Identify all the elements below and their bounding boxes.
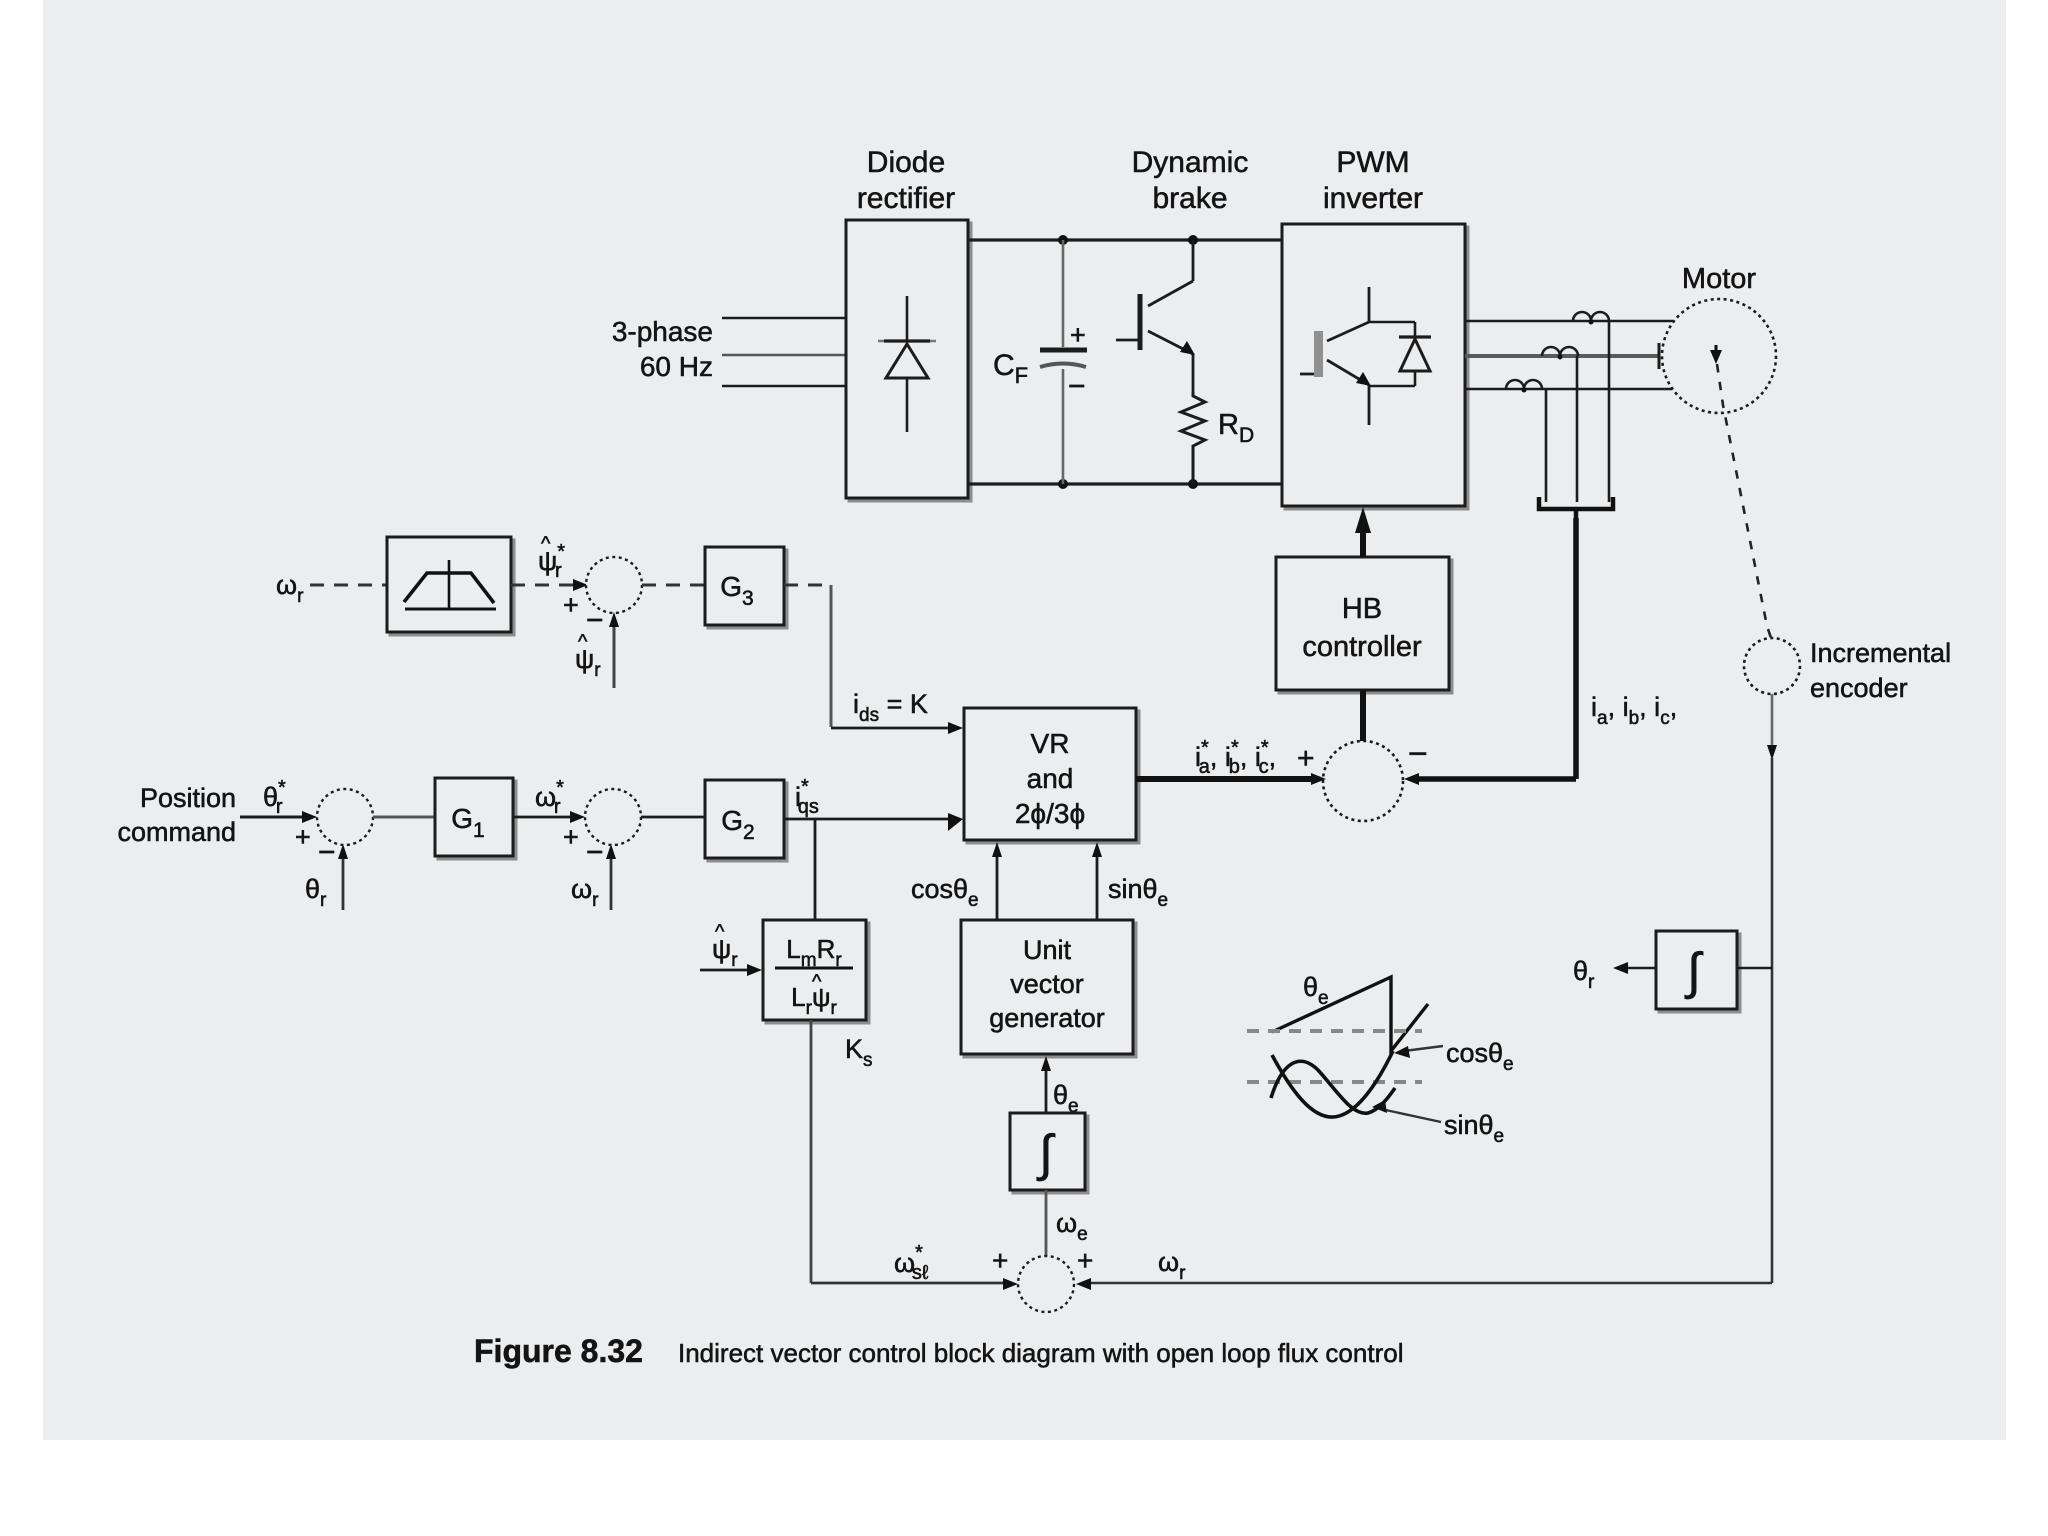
wire: DC bus top <box>968 238 1282 241</box>
wire: ia ib ic feedback (thick) <box>1573 518 1579 779</box>
summing junction speed <box>585 789 641 845</box>
waveform dashed axis bottom <box>1247 1080 1422 1084</box>
transistor Q1 (dynamic brake IGBT) <box>1116 240 1193 392</box>
svg-text:PWM: PWM <box>1336 146 1409 179</box>
waveform dashed axis top <box>1247 1029 1422 1033</box>
wire: omega sl star down and right to bottom summer <box>810 1020 813 1283</box>
current sensor on phase b <box>1542 347 1578 360</box>
svg-text:+: + <box>1070 320 1086 350</box>
integrator (position) box <box>1659 934 1740 1012</box>
svg-text:+: + <box>295 822 311 852</box>
svg-text:^: ^ <box>541 533 551 555</box>
svg-text:+: + <box>563 822 579 852</box>
summing junction bottom (omega e) <box>1018 1256 1074 1312</box>
svg-text:Motor: Motor <box>1682 263 1756 295</box>
svg-text:−: − <box>586 836 604 869</box>
wire: iqs tap down to slip block <box>814 819 817 920</box>
svg-text:3-phase: 3-phase <box>612 316 713 347</box>
svg-text:controller: controller <box>1302 631 1422 663</box>
svg-text:Incremental: Incremental <box>1810 638 1951 668</box>
wire: integrator input from encoder line <box>1737 967 1772 970</box>
resistor RD <box>1181 392 1205 484</box>
block: flux program (function) <box>390 540 514 635</box>
svg-text:Position: Position <box>140 783 236 813</box>
svg-text:inverter: inverter <box>1323 182 1423 215</box>
wire: summer to G1 <box>373 816 435 819</box>
bracket joining sensor taps <box>1539 497 1613 509</box>
svg-text:Figure 8.32: Figure 8.32 <box>474 1333 643 1369</box>
wire: omega r to bottom summer <box>1082 1282 1772 1285</box>
wire: sensor tap b down <box>1576 356 1579 502</box>
svg-text:brake: brake <box>1152 182 1227 215</box>
wire: position input arrow <box>240 816 307 819</box>
block: G2 <box>708 783 787 861</box>
wire: HB to inverter (thick, arrow up) <box>1360 532 1366 557</box>
block: PWM inverter box <box>1285 227 1468 509</box>
svg-text:+: + <box>563 590 579 620</box>
svg-text:^: ^ <box>812 971 822 993</box>
wire: ids = K down and to VR <box>830 585 833 727</box>
pointer: sin theta e <box>1381 1109 1441 1122</box>
wire: sensor tap a down <box>1608 321 1611 502</box>
svg-text:Dynamic: Dynamic <box>1132 146 1249 179</box>
diode D2 (inverter freewheel diode) <box>1369 322 1431 386</box>
wire: speed summer to G2 <box>641 816 705 819</box>
summing junction position <box>317 789 373 845</box>
current sensor on phase a <box>1573 312 1609 325</box>
wire: cos theta e up to VR <box>996 850 999 920</box>
block: unit vector generator <box>964 923 1136 1057</box>
wire: omega e up into integrator <box>1045 1190 1048 1256</box>
diode D1 inside rectifier <box>878 296 936 432</box>
svg-text:^: ^ <box>578 631 588 653</box>
svg-text:60 Hz: 60 Hz <box>640 351 713 382</box>
capacitor CF <box>1040 240 1087 484</box>
svg-text:Diode: Diode <box>867 146 945 179</box>
wire: encoder speed feedback down <box>1771 694 1774 745</box>
block: LmRr over Lr psi (slip gain) <box>766 923 869 1023</box>
svg-text:rectifier: rectifier <box>857 182 955 215</box>
svg-text:Unit: Unit <box>1023 935 1072 965</box>
svg-text:Indirect vector control block: Indirect vector control block diagram wi… <box>678 1338 1403 1368</box>
wire: G2 to VR (iqs) <box>784 818 952 821</box>
incremental encoder <box>1744 638 1800 694</box>
current sensor on phase c <box>1506 380 1542 393</box>
svg-text:−: − <box>586 604 604 637</box>
wire: sensor tap c down <box>1545 389 1548 502</box>
svg-text:HB: HB <box>1342 593 1382 625</box>
block: HB controller <box>1279 560 1452 693</box>
svg-text:command: command <box>117 817 236 847</box>
wire: dashed G3 output <box>784 584 828 587</box>
wire: 3-phase input lines <box>722 318 846 386</box>
svg-text:+: + <box>992 1245 1008 1276</box>
svg-text:^: ^ <box>715 921 725 943</box>
label: Diode rectifier <box>857 146 955 215</box>
wire: sin theta e up to VR <box>1096 850 1099 920</box>
svg-text:−: − <box>1408 735 1428 773</box>
wire: theta e into UVG <box>1045 1064 1048 1113</box>
svg-text:ω*r: ω*r <box>535 777 564 818</box>
block: G1 <box>438 781 516 859</box>
wire: VR output i*abc (thick) <box>1136 776 1314 782</box>
svg-text:−: − <box>1068 370 1086 403</box>
wire: psi hat r into slip block <box>700 969 753 972</box>
integrator (slip) box <box>1013 1116 1088 1193</box>
wire: G1 to speed summer <box>513 816 575 819</box>
pointer: cos theta e <box>1404 1046 1443 1051</box>
svg-text:VR: VR <box>1031 728 1070 759</box>
waveform sine curves <box>1271 1051 1395 1117</box>
label: Dynamic brake <box>1132 146 1249 215</box>
wire: omega r feedback up <box>610 852 613 910</box>
wire: psi hat r feedback up into summer <box>613 620 616 688</box>
junction dots on bus <box>1058 235 1068 245</box>
wire: inverter output phase c <box>1465 388 1672 391</box>
block: diode rectifier box <box>849 223 971 501</box>
svg-text:2ϕ/3ϕ: 2ϕ/3ϕ <box>1015 798 1085 829</box>
wire: dashed summer to G3 <box>642 584 705 587</box>
label: Position command <box>117 783 236 847</box>
label: 3-phase 60 Hz <box>612 316 713 382</box>
transistor Q2 (inverter IGBT) <box>1300 287 1369 425</box>
wire: DC bus bottom <box>968 482 1282 485</box>
block: G3 <box>708 550 787 628</box>
svg-text:vector: vector <box>1010 969 1084 999</box>
wire: summer to HB (thick) <box>1360 690 1366 742</box>
wire: dashed omega r to flux program <box>310 584 387 587</box>
wire: inverter output phase a <box>1465 320 1673 323</box>
wire: dashed flux to summer <box>511 584 578 587</box>
summing junction (current comparator) <box>1323 741 1403 821</box>
label: PWM inverter <box>1323 146 1423 215</box>
svg-text:−: − <box>318 836 336 869</box>
svg-text:generator: generator <box>989 1003 1105 1033</box>
svg-text:+: + <box>1077 1245 1093 1276</box>
motor shaft mark <box>1715 345 1718 355</box>
wire: theta r output <box>1626 967 1656 970</box>
svg-text:i*a, i*b, i*c,: i*a, i*b, i*c, <box>1195 737 1276 778</box>
wire: dashed shaft to encoder <box>1717 364 1771 638</box>
wire: theta r feedback up <box>342 852 345 910</box>
svg-text:and: and <box>1027 763 1074 794</box>
label: Incremental encoder <box>1810 638 1951 703</box>
svg-text:+: + <box>1297 742 1315 775</box>
summing junction flux <box>586 557 642 613</box>
wire: inverter output phase b <box>1465 354 1659 358</box>
waveform sketch: theta e ramp <box>1272 977 1428 1051</box>
svg-text:encoder: encoder <box>1810 673 1908 703</box>
block: VR and 2ph/3ph <box>967 711 1139 843</box>
